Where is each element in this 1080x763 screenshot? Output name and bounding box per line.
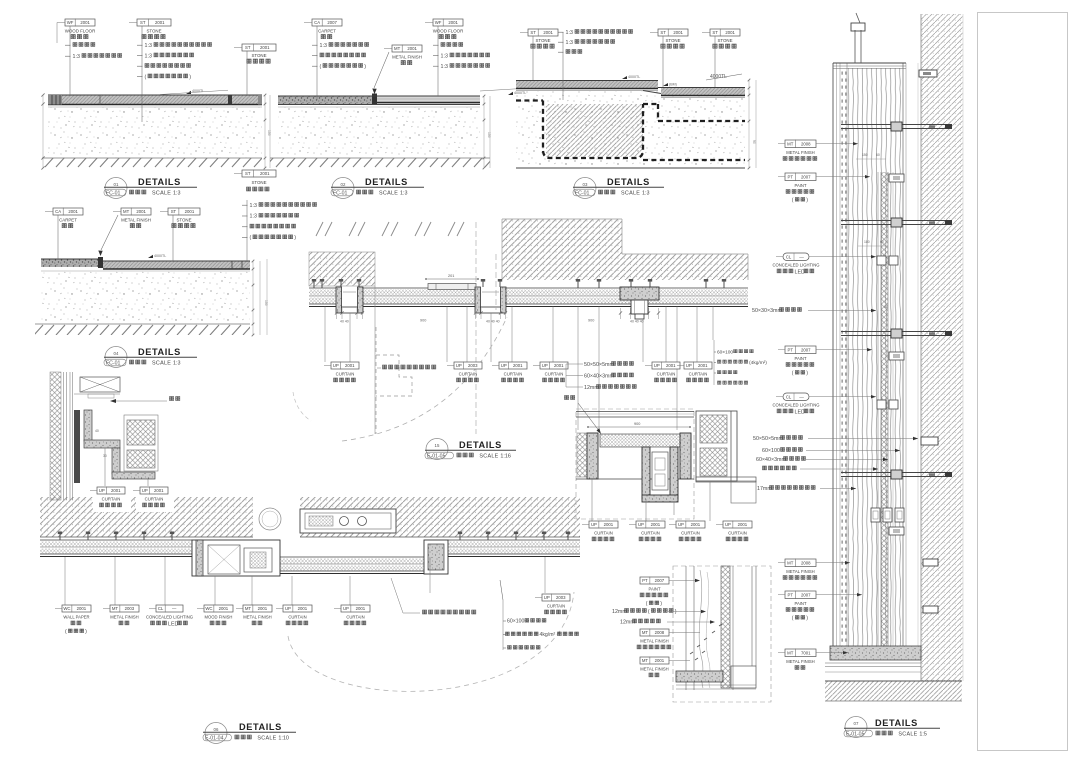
svg-text:): ) [675, 609, 677, 615]
svg-text:(BM): (BM) [669, 83, 677, 87]
svg-text:LED: LED [168, 621, 179, 627]
svg-text:DETAILS: DETAILS [239, 722, 282, 732]
svg-text:50×50×5mm: 50×50×5mm [753, 436, 783, 442]
svg-text:PT: PT [788, 175, 794, 180]
svg-text:LED: LED [795, 409, 806, 415]
svg-text:7001: 7001 [801, 651, 811, 656]
svg-text:CURTAIN: CURTAIN [641, 531, 660, 536]
svg-text:WC: WC [63, 606, 70, 611]
svg-text:—: — [172, 606, 177, 611]
svg-text:MT: MT [642, 630, 649, 635]
svg-text:1:3: 1:3 [145, 53, 152, 59]
svg-text:2001: 2001 [666, 363, 676, 368]
svg-text:CURTAIN: CURTAIN [346, 615, 364, 620]
svg-text:UP: UP [501, 363, 507, 368]
svg-text:2003: 2003 [556, 595, 566, 600]
svg-text:2008: 2008 [801, 142, 811, 147]
svg-text:60: 60 [876, 153, 880, 157]
svg-text:MT: MT [394, 46, 401, 51]
svg-text:CURTAIN: CURTAIN [145, 497, 164, 502]
svg-text:CL: CL [786, 255, 792, 260]
svg-text:17mm: 17mm [757, 486, 772, 492]
svg-text:—: — [799, 254, 804, 259]
svg-text:03: 03 [583, 182, 588, 187]
svg-text:PT: PT [788, 348, 794, 353]
svg-text:2007: 2007 [655, 578, 665, 583]
svg-text:(: ( [65, 629, 67, 635]
svg-text:PT: PT [788, 593, 794, 598]
svg-text:METAL FINISH: METAL FINISH [392, 55, 422, 60]
svg-text:(: ( [250, 235, 252, 241]
svg-text:UP: UP [343, 606, 349, 611]
svg-text:2001: 2001 [513, 363, 523, 368]
svg-text:2001: 2001 [260, 45, 270, 50]
svg-text:06: 06 [214, 727, 219, 732]
svg-text:2001: 2001 [604, 522, 614, 527]
svg-text:WF: WF [435, 20, 442, 25]
svg-text:UP: UP [544, 595, 550, 600]
svg-text:UP: UP [654, 363, 660, 368]
svg-text:STONE: STONE [717, 38, 732, 43]
svg-text:(: ( [792, 198, 794, 204]
svg-text:MT: MT [787, 561, 794, 566]
svg-text:CURTAIN: CURTAIN [681, 531, 700, 536]
svg-text:E-01-04: E-01-04 [205, 735, 224, 741]
svg-text:1:3: 1:3 [566, 30, 573, 36]
svg-text:1:3: 1:3 [145, 43, 152, 49]
svg-text:CARPET: CARPET [59, 218, 77, 223]
svg-text:4000TL: 4000TL [154, 254, 166, 258]
svg-text:STONE: STONE [146, 29, 161, 34]
svg-text:2008: 2008 [801, 561, 811, 566]
svg-text:SCALE: SCALE [152, 191, 171, 197]
svg-text:2001: 2001 [154, 488, 164, 493]
svg-text:CURTAIN: CURTAIN [336, 372, 355, 377]
svg-text:ST: ST [712, 30, 718, 35]
svg-text:900: 900 [634, 422, 640, 426]
svg-text:2001: 2001 [155, 20, 165, 25]
svg-text:CURTAIN: CURTAIN [459, 372, 478, 377]
svg-text:CURTAIN: CURTAIN [545, 372, 564, 377]
svg-text:07: 07 [854, 721, 859, 726]
svg-text:1:3: 1:3 [320, 43, 327, 49]
svg-text:METAL FINISH: METAL FINISH [786, 569, 814, 574]
svg-text:—: — [799, 394, 804, 399]
svg-text:(: ( [792, 371, 794, 377]
svg-text:40 40: 40 40 [340, 320, 349, 324]
svg-text:STONE: STONE [665, 38, 680, 43]
svg-text:): ) [189, 74, 191, 80]
svg-text:CONCEALED LIGHTING: CONCEALED LIGHTING [772, 403, 819, 408]
svg-text:UP: UP [678, 522, 684, 527]
svg-text:150: 150 [264, 300, 268, 306]
svg-text:STONE: STONE [176, 218, 191, 223]
svg-text:UP: UP [725, 522, 731, 527]
svg-text:SCALE: SCALE [257, 736, 276, 742]
svg-text:CURTAIN: CURTAIN [504, 372, 523, 377]
svg-text:CURTAIN: CURTAIN [689, 372, 708, 377]
svg-text:60×100: 60×100 [717, 349, 733, 355]
svg-text:PAINT: PAINT [794, 183, 806, 188]
svg-text:(: ( [646, 601, 648, 607]
svg-text:METAL FINISH: METAL FINISH [640, 667, 668, 672]
svg-text:2001: 2001 [691, 522, 701, 527]
svg-text:MT: MT [245, 606, 252, 611]
svg-text:4kg/m²: 4kg/m² [540, 632, 556, 638]
svg-text:MT: MT [787, 651, 794, 656]
svg-text:PAINT: PAINT [794, 601, 806, 606]
svg-text:2001: 2001 [725, 30, 735, 35]
svg-text:2001: 2001 [448, 20, 458, 25]
svg-text:04: 04 [114, 351, 119, 356]
svg-text:WF: WF [67, 20, 74, 25]
svg-text:1:3: 1:3 [642, 191, 650, 197]
svg-text:2001: 2001 [655, 658, 665, 663]
svg-text:2001: 2001 [738, 522, 748, 527]
svg-text:ST: ST [245, 171, 251, 176]
svg-text:E-01-05: E-01-05 [846, 731, 865, 737]
svg-text:METAL FINISH: METAL FINISH [786, 659, 814, 664]
svg-text:FC-01: FC-01 [106, 190, 121, 196]
svg-text:(: ( [320, 64, 322, 70]
svg-text:CURTAIN: CURTAIN [657, 372, 676, 377]
svg-text:FC-01: FC-01 [333, 190, 348, 196]
svg-text:1:3: 1:3 [73, 54, 80, 60]
svg-text:2001: 2001 [554, 363, 564, 368]
svg-text:12mm: 12mm [584, 385, 599, 391]
svg-text:60×100: 60×100 [762, 448, 780, 454]
svg-text:): ) [294, 235, 296, 241]
svg-text:60×100: 60×100 [507, 619, 524, 625]
svg-text:MT: MT [123, 209, 130, 214]
svg-text:CURTAIN: CURTAIN [594, 531, 613, 536]
svg-text:): ) [660, 601, 662, 607]
svg-text:2001: 2001 [219, 606, 229, 611]
svg-text:SCALE: SCALE [479, 454, 498, 460]
svg-text:90: 90 [752, 140, 756, 144]
svg-text:PT: PT [642, 578, 648, 583]
svg-text:2001: 2001 [260, 171, 270, 176]
svg-text:4000TL: 4000TL [628, 75, 640, 79]
svg-text:2007: 2007 [801, 593, 811, 598]
svg-text:WC: WC [205, 606, 212, 611]
svg-text:DETAILS: DETAILS [365, 177, 408, 187]
svg-text:METAL FINISH: METAL FINISH [786, 150, 814, 155]
svg-text:2001: 2001 [111, 488, 121, 493]
svg-text:1:3: 1:3 [400, 191, 408, 197]
svg-text:40 40 40: 40 40 40 [486, 320, 500, 324]
svg-text:DETAILS: DETAILS [138, 177, 181, 187]
svg-text:METAL FINISH: METAL FINISH [243, 615, 271, 620]
svg-text:12mm: 12mm [620, 619, 635, 625]
svg-text:CA: CA [314, 20, 320, 25]
svg-text:2001: 2001 [345, 363, 355, 368]
svg-text:CURTAIN: CURTAIN [547, 604, 565, 609]
svg-text:MT: MT [112, 606, 119, 611]
svg-text:40: 40 [95, 429, 99, 433]
svg-text:12mm: 12mm [612, 609, 627, 615]
svg-text:2001: 2001 [68, 209, 78, 214]
svg-text:METAL FINISH: METAL FINISH [121, 218, 151, 223]
svg-text:2001: 2001 [77, 606, 87, 611]
svg-text:60: 60 [880, 240, 884, 244]
svg-text:1:3: 1:3 [441, 53, 448, 59]
svg-text:UP: UP [542, 363, 548, 368]
svg-text:STONE: STONE [535, 38, 550, 43]
svg-text:1:10: 1:10 [278, 736, 289, 742]
svg-text:ST: ST [245, 45, 251, 50]
svg-text:ST: ST [530, 30, 536, 35]
svg-text:): ) [806, 616, 808, 622]
svg-text:2001: 2001 [136, 209, 146, 214]
svg-text:900: 900 [588, 319, 594, 323]
svg-text:UP: UP [456, 363, 462, 368]
svg-text:METAL FINISH: METAL FINISH [110, 615, 138, 620]
svg-text:2001: 2001 [407, 46, 417, 51]
svg-text:40 40 40: 40 40 40 [630, 320, 644, 324]
svg-text:CARPET: CARPET [318, 29, 336, 34]
svg-text:CONCEALED LIGHTING: CONCEALED LIGHTING [772, 263, 819, 268]
svg-text:MT: MT [787, 142, 794, 147]
svg-text:CURTAIN: CURTAIN [102, 497, 121, 502]
svg-text:201: 201 [448, 274, 454, 278]
svg-text:15: 15 [435, 443, 440, 448]
svg-text:2001: 2001 [185, 209, 195, 214]
svg-text:180: 180 [864, 240, 870, 244]
svg-text:1:3: 1:3 [173, 191, 181, 197]
svg-text:2001: 2001 [651, 522, 661, 527]
svg-text:2001: 2001 [258, 606, 268, 611]
svg-text:900: 900 [420, 319, 426, 323]
svg-text:CONCEALED LIGHTING: CONCEALED LIGHTING [146, 615, 193, 620]
svg-text:UP: UP [686, 363, 692, 368]
svg-text:2007: 2007 [327, 20, 337, 25]
svg-text:UP: UP [591, 522, 597, 527]
svg-text:ST: ST [660, 30, 666, 35]
svg-text:PAINT: PAINT [794, 356, 806, 361]
svg-text:UP: UP [638, 522, 644, 527]
svg-text:1:3: 1:3 [566, 40, 573, 46]
svg-text:2007: 2007 [801, 175, 811, 180]
svg-text:2001: 2001 [543, 30, 553, 35]
svg-text:1:3: 1:3 [173, 361, 181, 367]
svg-text:MOOD FINISH: MOOD FINISH [205, 615, 233, 620]
svg-text:CURTAIN: CURTAIN [728, 531, 747, 536]
svg-text:): ) [806, 371, 808, 377]
svg-text:UP: UP [142, 488, 148, 493]
svg-text:WOOD FLOOR: WOOD FLOOR [65, 29, 96, 34]
svg-text:60×40×3mm: 60×40×3mm [584, 373, 614, 379]
svg-text:50×30×3mm: 50×30×3mm [752, 308, 782, 314]
svg-text:WOOD FLOOR: WOOD FLOOR [433, 29, 464, 34]
svg-text:(: ( [792, 616, 794, 622]
svg-text:CA: CA [55, 209, 61, 214]
svg-text:2001: 2001 [698, 363, 708, 368]
svg-text:60: 60 [884, 305, 888, 309]
svg-text:2003: 2003 [468, 363, 478, 368]
svg-text:150: 150 [862, 153, 868, 157]
svg-text:): ) [85, 629, 87, 635]
svg-text:PAINT: PAINT [648, 587, 660, 592]
svg-text:FC-01: FC-01 [106, 360, 121, 366]
svg-text:METAL FINISH: METAL FINISH [640, 639, 668, 644]
svg-text:DETAILS: DETAILS [138, 347, 181, 357]
svg-text:ST: ST [171, 209, 177, 214]
svg-text:2007: 2007 [801, 348, 811, 353]
svg-text:1:3: 1:3 [441, 64, 448, 70]
svg-text:150: 150 [487, 132, 491, 138]
svg-text:CL: CL [158, 606, 164, 611]
svg-text:150: 150 [267, 130, 271, 136]
svg-text:STONE: STONE [251, 53, 266, 58]
svg-text:UP: UP [333, 363, 339, 368]
svg-text:(: ( [145, 74, 147, 80]
svg-text:2003: 2003 [125, 606, 135, 611]
svg-text:(4kg/m²): (4kg/m²) [749, 360, 767, 366]
svg-text:2001: 2001 [80, 20, 90, 25]
svg-text:ST: ST [140, 20, 146, 25]
svg-text:02: 02 [341, 182, 346, 187]
svg-text:SCALE: SCALE [898, 732, 917, 738]
svg-text:2001: 2001 [298, 606, 308, 611]
svg-text:01: 01 [114, 182, 119, 187]
svg-text:SCALE: SCALE [379, 191, 398, 197]
svg-text:1:16: 1:16 [500, 454, 511, 460]
svg-text:2008: 2008 [655, 630, 665, 635]
svg-text:60×40×3mm: 60×40×3mm [756, 457, 786, 463]
svg-text:1:3: 1:3 [250, 214, 257, 220]
svg-text:CURTAIN: CURTAIN [288, 615, 306, 620]
svg-text:MT: MT [642, 658, 649, 663]
svg-text:WALL PAPER: WALL PAPER [63, 615, 89, 620]
svg-text:50×50×5mm: 50×50×5mm [584, 362, 614, 368]
svg-text:(: ( [648, 609, 650, 615]
svg-text:1:3: 1:3 [250, 203, 257, 209]
svg-text:SCALE: SCALE [621, 191, 640, 197]
svg-text:UP: UP [285, 606, 291, 611]
svg-text:LED: LED [795, 269, 806, 275]
svg-text:CL: CL [786, 395, 792, 400]
svg-text:FC-01: FC-01 [575, 190, 590, 196]
svg-text:DETAILS: DETAILS [459, 440, 502, 450]
svg-text:2001: 2001 [356, 606, 366, 611]
svg-text:): ) [364, 64, 366, 70]
svg-text:E-01-05: E-01-05 [427, 453, 446, 459]
svg-text:): ) [806, 198, 808, 204]
svg-text:DETAILS: DETAILS [875, 718, 918, 728]
svg-text:STONE: STONE [251, 180, 266, 185]
svg-text:2001: 2001 [673, 30, 683, 35]
svg-text:DETAILS: DETAILS [607, 177, 650, 187]
svg-text:1:5: 1:5 [919, 732, 927, 738]
svg-text:UP: UP [99, 488, 105, 493]
svg-text:SCALE: SCALE [152, 361, 171, 367]
